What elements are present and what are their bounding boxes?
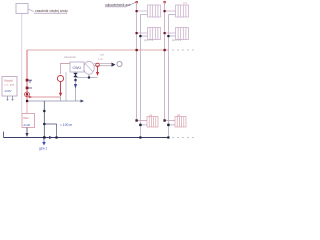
wire from CWU left port [61,64,71,75]
box B1 (controller, top-left) [16,4,28,14]
air vent (red square, riser A top) [136,1,138,3]
junction dot supply main / riser A [136,49,138,51]
outlet circle [117,61,122,66]
svg-text:dn40: dn40 [24,123,31,127]
supply riser B [164,2,166,121]
wire dashed continuation of return main [172,137,197,139]
svg-text:wyl.: wyl. [100,53,105,57]
junction dot B1 supply [164,10,166,12]
radiator D1 (basement right) [175,117,186,128]
junction dot C1 return [139,124,141,126]
wire pump line down to return main [60,97,62,101]
box B3 (CWU tank) [70,62,84,72]
pump/valve circle on red pipe [25,92,30,97]
valve (bowtie) under CWU [74,73,78,77]
wire supply stub A2 [137,32,148,34]
wire supply stub A1 [137,10,148,12]
junction dot ellipse stub [88,76,90,78]
wire return main (dark blue, y=137.5) [4,137,169,139]
flow arrow on return main [49,136,53,139]
junction dot A2 return [139,35,141,37]
air vent (red square, riser B top) [164,1,166,3]
wire return stub A2 [140,35,147,37]
svg-text:c.o. gaz: c.o. gaz [5,83,15,87]
svg-text:230V: 230V [5,89,12,93]
junction dot supply main / riser B [164,49,166,51]
svg-text:CWU: CWU [73,66,82,70]
wire return stub B2 [168,35,175,37]
wire cold feed drop (x=66) [65,72,67,101]
radiator B2 [176,28,189,40]
arrowhead drain line [81,100,85,103]
return riser A [139,15,141,138]
svg-text:g2: g2 [177,113,181,117]
wire cold-water horizontal y=77.5 [76,77,98,79]
wire supply stub C1 [137,120,147,122]
radiator B1 [176,5,189,17]
sensor stub (blue) right of V_a [29,80,33,83]
wire pump outlet down [60,82,62,93]
wire DHW double line [94,63,113,65]
svg-text:zasobnik: zasobnik [64,55,76,59]
junction dot C1 supply [135,119,137,121]
flow arrowhead on pink return [29,96,33,99]
junction dot B2 return [167,35,169,37]
red pipe into box B2 [26,101,28,114]
red distribution pipe (left, x=27) [26,50,28,101]
junction dot drain/red pipe [26,100,28,102]
wire pink return (y=96.5) from valve to pump drop [27,96,61,98]
svg-text:zasobnik cieplej wody: zasobnik cieplej wody [35,9,68,13]
ground / flow-direction arrow below main [43,139,45,143]
sensor stub (blue) right of V_b [29,87,33,89]
radiator A2 [148,28,161,40]
wire return main left end stub [3,132,5,138]
wire return stub D1 [168,124,175,126]
wire supply main (red, y=50) [27,49,168,51]
wire supply stub D1 [165,120,175,122]
wire return stub A1 [140,14,147,16]
junction dot return main / riser A [139,136,141,138]
dimension line with arrow (y=124) [44,124,56,138]
valve dot V_b [26,87,29,90]
junction dot A1 supply [136,10,138,12]
junction dot x44 at dimension line [43,123,45,125]
wire supply stub B2 [165,32,176,34]
wire drain horizontal y=100.5 [27,100,83,102]
wire return stub B1 [168,14,175,16]
svg-text:Pex: Pex [24,116,30,120]
arrowhead B2 port [25,133,28,137]
svg-text:pion P2: pion P2 [172,38,182,42]
return riser B [167,15,169,138]
wire CWU drop to drain line [75,78,77,102]
box B1 left (heat source, left) [2,77,17,97]
svg-text:≈ 100 m: ≈ 100 m [60,123,72,127]
wire leader from B1 to label [28,9,34,12]
junction dot A2 supply [136,32,138,34]
junction dot B2 supply [164,32,166,34]
arrowhead on CWU drop [74,79,76,81]
wire return stub C1 [140,124,147,126]
wire B2 bottom port to return main [26,128,28,135]
wire supply stub B1 [165,10,176,12]
wire ellipse bottom stub [88,74,90,77]
port stubs under left box [8,96,13,100]
radiator C1 (basement left) [147,117,158,128]
svg-text:gzw 1: gzw 1 [39,147,48,151]
arrowhead pump outlet [59,93,62,97]
valve dot V_a [26,79,29,82]
svg-text:g1: g1 [149,113,153,117]
arrowhead on CWU drop [74,84,77,89]
junction dot return main / riser B [167,136,169,138]
radiator A1 [148,5,161,17]
pump circle (red) [57,75,63,81]
junction dot D1 supply [163,119,165,121]
box B2 (Pex) [22,114,35,128]
svg-text:0,9: 0,9 [183,1,187,5]
wire V1 from B1 down to box B2 [21,14,23,114]
svg-text:c.w.: c.w. [98,57,103,61]
junction dot x44 at return main [43,136,45,138]
svg-text:pion P1: pion P1 [144,38,154,42]
wire leader from T2 to riser A vent [126,2,137,7]
wire drop to return main (x=44.3) [43,101,45,138]
expansion vessel (ellipse) [84,61,94,74]
red inlet valve with arrow (x=97.5) [97,66,99,73]
supply riser A [136,2,138,121]
arrowhead DHW [112,63,116,67]
junction dot D1 return [167,124,169,126]
junction dot x44 upper [43,110,45,112]
junction dot dimension drop [55,136,57,138]
wire dashed continuation of supply main [172,49,197,51]
